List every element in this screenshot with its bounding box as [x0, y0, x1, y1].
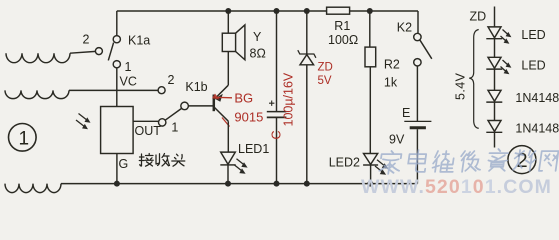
LED (second, figure 2) [486, 57, 508, 90]
svg-text:1: 1 [125, 60, 132, 74]
brace 5.4V [469, 30, 479, 129]
wire top supply bus [117, 10, 418, 12]
svg-text:G: G [119, 157, 129, 171]
IR receiver box [101, 107, 134, 154]
wire LED string vertical [494, 7, 496, 27]
transistor BG9015 [214, 85, 229, 121]
node top junction zener [304, 8, 310, 14]
svg-text:100µ/16V: 100µ/16V [282, 72, 296, 126]
svg-text:BG: BG [234, 91, 253, 106]
node top junction speaker [225, 8, 231, 14]
wire OUT lead [133, 120, 159, 122]
svg-text:LED: LED [521, 59, 545, 73]
wire base lead [188, 105, 214, 107]
figure number 2 [508, 146, 536, 174]
svg-text:9015: 9015 [234, 110, 263, 125]
svg-text:Y: Y [253, 30, 262, 44]
svg-text:ZD: ZD [318, 62, 333, 74]
wire bottom ground bus [61, 183, 417, 185]
diode 1N4148 (fourth) [486, 121, 502, 148]
wire middle coil to K1b terminal 2 [69, 89, 158, 91]
svg-text:1: 1 [19, 129, 30, 150]
svg-text:1N4148: 1N4148 [515, 122, 559, 136]
coil winding middle [5, 90, 69, 98]
svg-text:5.4V: 5.4V [454, 72, 468, 100]
wire receiver ground lead [116, 154, 118, 184]
battery E 9V [404, 121, 431, 183]
node capacitor ground junction [274, 181, 280, 187]
label receiver chinese 接收头 [139, 154, 185, 167]
svg-text:R2: R2 [384, 58, 400, 72]
svg-text:100Ω: 100Ω [328, 33, 358, 47]
svg-text:K1a: K1a [128, 34, 150, 48]
node LED1 ground junction [225, 181, 231, 187]
svg-text:1: 1 [171, 121, 178, 135]
IR input arrows [76, 114, 88, 128]
speaker Y [222, 25, 245, 60]
svg-text:C: C [270, 130, 284, 139]
red annotation arrow on emitter [216, 97, 232, 126]
LED2 [363, 154, 384, 184]
figure number 1 [8, 124, 36, 152]
wire coil to K1a terminal 2 [70, 51, 96, 53]
node LED2 ground junction [367, 181, 373, 187]
LED1 [220, 121, 244, 183]
coil winding bottom [5, 184, 61, 193]
svg-text:9V: 9V [389, 133, 405, 147]
svg-text:VC: VC [120, 75, 137, 89]
zener diode ZD 5V [298, 11, 316, 184]
watermark URL www.520101.com [361, 176, 552, 198]
svg-text:K2: K2 [397, 21, 412, 35]
svg-text:1k: 1k [384, 76, 398, 90]
capacitor C 100u/16V [267, 11, 287, 184]
svg-text:WWW.520101.COM: WWW.520101.COM [361, 176, 552, 196]
switch K1a [95, 11, 120, 68]
switch K2 [414, 11, 432, 121]
node zener ground junction [304, 181, 310, 187]
switch K1b [158, 87, 188, 126]
node top junction capacitor [274, 8, 280, 14]
resistor R1 [327, 7, 350, 14]
svg-text:8Ω: 8Ω [250, 47, 266, 61]
wire VC line [116, 68, 118, 107]
LED (top, figure 2) [486, 27, 508, 57]
coil winding top [6, 53, 70, 63]
resistor R2 [365, 11, 376, 154]
svg-text:OUT: OUT [135, 124, 162, 138]
svg-text:5V: 5V [318, 75, 332, 87]
watermark chinese 家电维修资料网 [379, 149, 559, 174]
svg-text:ZD: ZD [470, 10, 487, 24]
diode 1N4148 (third) [486, 90, 502, 120]
node junction R1/R2/K2 [367, 8, 373, 14]
svg-text:1N4148: 1N4148 [515, 91, 559, 105]
svg-text:LED2: LED2 [329, 156, 360, 170]
svg-text:E: E [402, 106, 410, 120]
node receiver ground junction [114, 181, 120, 187]
svg-text:2: 2 [83, 33, 90, 47]
wire emitter to speaker [227, 52, 229, 86]
svg-text:K1b: K1b [185, 80, 207, 94]
svg-text:LED1: LED1 [238, 142, 269, 156]
svg-text:R1: R1 [334, 19, 350, 33]
svg-text:2: 2 [168, 73, 175, 87]
svg-text:LED: LED [521, 28, 545, 42]
